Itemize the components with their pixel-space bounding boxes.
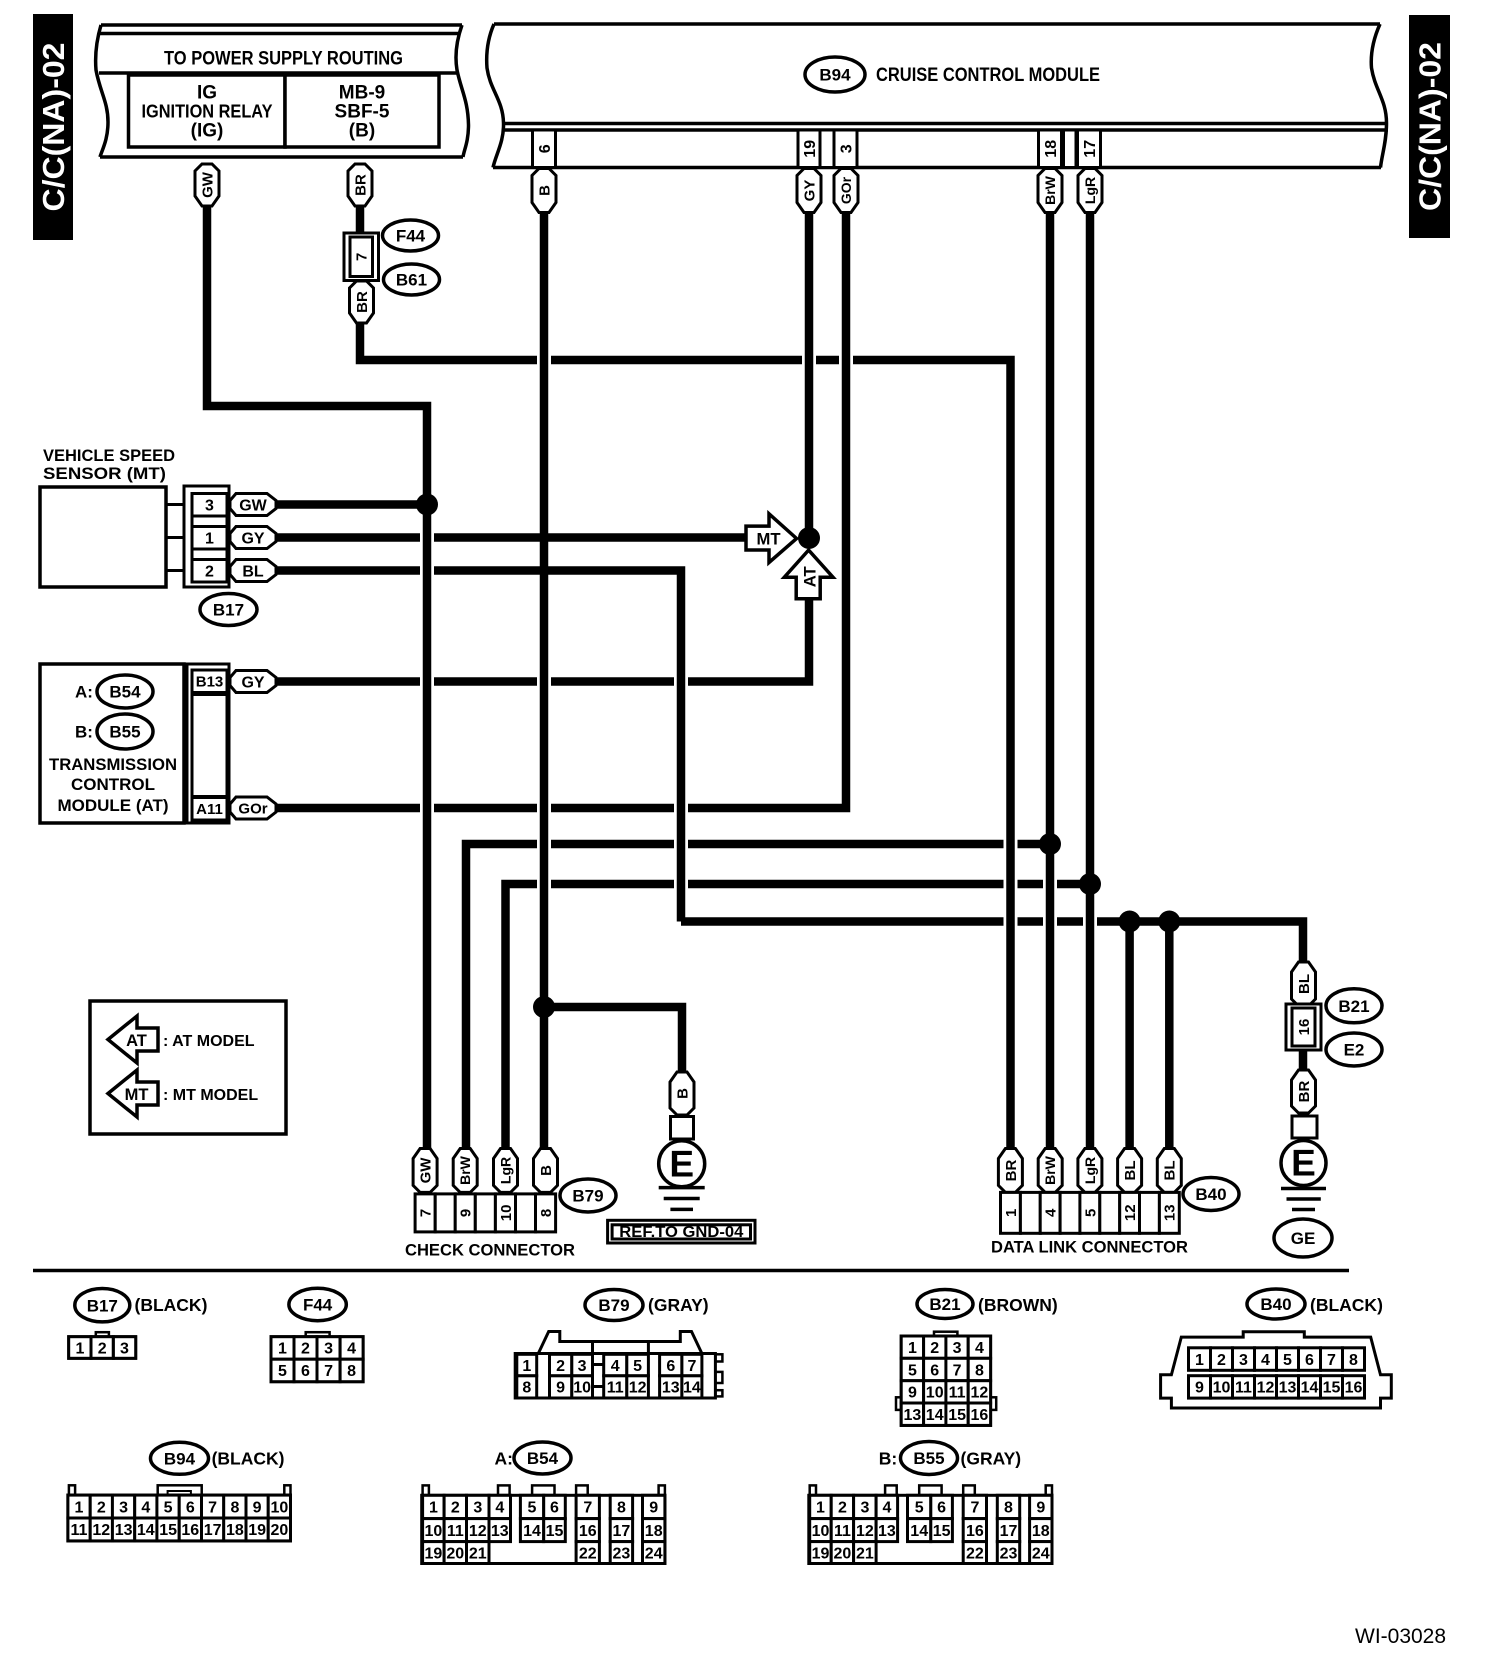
page tab C/C(NA)-02 right: [1409, 15, 1450, 238]
svg-text:14: 14: [1301, 1380, 1319, 1397]
svg-text:VEHICLE SPEED: VEHICLE SPEED: [43, 446, 175, 465]
svg-text:2: 2: [97, 1499, 106, 1516]
svg-text:6: 6: [937, 1500, 946, 1517]
svg-text:17: 17: [204, 1522, 222, 1539]
module pin 18 box: [1039, 130, 1062, 168]
transmission control module box: [40, 664, 184, 823]
wire color pill BR data pin1: [998, 1149, 1022, 1193]
svg-text:LgR: LgR: [1082, 1157, 1098, 1184]
svg-text:E: E: [1291, 1143, 1316, 1184]
svg-text:12: 12: [971, 1385, 989, 1402]
svg-text:BrW: BrW: [1042, 175, 1058, 205]
svg-text:B: B: [674, 1088, 691, 1099]
svg-text:3: 3: [953, 1340, 962, 1357]
connector pinout B94 body: [69, 1485, 75, 1495]
B54 pin 12: [467, 1519, 490, 1542]
svg-text:B17: B17: [213, 601, 244, 620]
svg-text:GE: GE: [1291, 1229, 1316, 1248]
svg-text:4: 4: [347, 1341, 356, 1358]
B54 pin 4: [489, 1495, 511, 1518]
svg-text:10: 10: [425, 1523, 443, 1540]
svg-text:A11: A11: [196, 801, 223, 818]
B55 pin 14: [908, 1519, 931, 1542]
B40 pin 15: [1321, 1376, 1343, 1398]
B21 pin 9: [901, 1381, 923, 1403]
B17 pin 3: [113, 1337, 135, 1359]
sensor pin 3 cell: [192, 494, 227, 517]
svg-text:4: 4: [975, 1340, 984, 1357]
svg-text:B79: B79: [598, 1296, 629, 1315]
connector pinout B79 body outline: [538, 1332, 702, 1354]
wire color pill GW check pin7: [413, 1149, 437, 1193]
svg-text:CHECK CONNECTOR: CHECK CONNECTOR: [405, 1241, 575, 1260]
svg-text:: AT MODEL: : AT MODEL: [163, 1033, 255, 1050]
wire color pill BL data pin13: [1157, 1149, 1181, 1193]
module pin 3 box: [834, 130, 857, 168]
svg-text:13: 13: [491, 1523, 509, 1540]
B55 pin 16: [963, 1519, 986, 1542]
F44 pin 3: [317, 1337, 340, 1360]
svg-text:(BROWN): (BROWN): [978, 1295, 1058, 1315]
B40 pin 2: [1211, 1348, 1233, 1371]
check connector cell 10: [495, 1194, 515, 1232]
sensor connector stub pin3: [166, 503, 184, 506]
B79 pin 2: [550, 1354, 572, 1376]
junction B to ground branch: [533, 996, 555, 1018]
svg-text:GY: GY: [241, 530, 264, 547]
svg-text:(BLACK): (BLACK): [1310, 1295, 1383, 1315]
svg-text:F44: F44: [396, 227, 426, 246]
data link connector cell blank: [1060, 1192, 1080, 1233]
B55 pin 10: [810, 1519, 832, 1542]
svg-text:6: 6: [537, 144, 554, 153]
svg-text:1: 1: [278, 1341, 287, 1358]
svg-text:14: 14: [910, 1523, 928, 1540]
svg-text:BR: BR: [354, 291, 371, 313]
B40 pin 12: [1255, 1376, 1277, 1398]
svg-text:1: 1: [522, 1358, 531, 1375]
svg-text:LgR: LgR: [498, 1157, 514, 1184]
svg-text:7: 7: [208, 1499, 217, 1516]
B21 pin 3: [946, 1336, 968, 1358]
B79 pin 11: [604, 1376, 627, 1398]
B55 pin 12: [854, 1519, 877, 1542]
svg-text:8: 8: [617, 1500, 626, 1517]
F44 pin 8: [340, 1359, 363, 1382]
svg-text:17: 17: [1082, 140, 1099, 158]
svg-text:13: 13: [878, 1523, 896, 1540]
svg-text:7: 7: [1327, 1352, 1336, 1369]
wire color pill BL sensor pin2: [230, 560, 276, 582]
svg-text:B40: B40: [1195, 1185, 1226, 1204]
check connector cell 8: [536, 1194, 556, 1232]
TCM pin A11 cell: [192, 798, 227, 821]
svg-text:9: 9: [1036, 1500, 1045, 1517]
check connector cell 7: [415, 1194, 435, 1232]
svg-text:7: 7: [354, 253, 371, 261]
svg-text:19: 19: [812, 1545, 830, 1562]
B21 pin 13: [901, 1403, 923, 1425]
B94 pin 2: [90, 1495, 112, 1518]
svg-text:(IG): (IG): [191, 121, 224, 142]
B94 pin 5: [157, 1495, 179, 1518]
junction BrW branch node: [1039, 833, 1061, 855]
B79 pin 4: [604, 1354, 627, 1376]
svg-text:3: 3: [120, 1340, 129, 1357]
svg-text:1: 1: [908, 1340, 917, 1357]
wire color pill B on module pin6: [532, 169, 556, 213]
ground symbol E left: [659, 1141, 705, 1187]
wire color pill BrW data pin4: [1038, 1149, 1062, 1193]
svg-text:3: 3: [1239, 1352, 1248, 1369]
svg-text:2: 2: [1217, 1352, 1226, 1369]
vehicle speed sensor box: [40, 487, 166, 587]
svg-text:6: 6: [1305, 1352, 1314, 1369]
svg-text:1: 1: [75, 1340, 84, 1357]
B94 pin 9: [246, 1495, 268, 1518]
junction BL to data link pin13: [1158, 911, 1180, 933]
svg-text:3: 3: [838, 144, 855, 153]
B21 pin 10: [924, 1381, 946, 1403]
svg-text:3: 3: [119, 1499, 128, 1516]
data link connector cell blank: [1140, 1192, 1160, 1233]
svg-text:F44: F44: [303, 1296, 333, 1315]
B54 pin 11: [444, 1519, 466, 1542]
svg-text:14: 14: [523, 1523, 541, 1540]
svg-text:WI-03028: WI-03028: [1355, 1625, 1446, 1648]
svg-text:2: 2: [556, 1358, 565, 1375]
wire BL drop to data link pin 12: [1125, 922, 1134, 1153]
svg-text:8: 8: [538, 1209, 555, 1217]
legend box: [90, 1001, 286, 1134]
svg-text:20: 20: [446, 1545, 464, 1562]
separator line: [33, 1269, 1349, 1273]
B79 pin 10: [572, 1376, 593, 1398]
B94 pin 1: [68, 1495, 90, 1518]
B21 pin 14: [924, 1403, 946, 1425]
svg-text:B55: B55: [913, 1449, 944, 1468]
junction GW node: [416, 494, 438, 516]
svg-text:B55: B55: [109, 723, 140, 742]
F44 pin 4: [340, 1337, 363, 1360]
B54 pin 10: [423, 1519, 445, 1542]
wire color pill LgR check pin10: [494, 1149, 518, 1193]
junction LgR branch node: [1079, 873, 1101, 895]
wire color pill GW sensor pin3: [230, 494, 276, 516]
svg-text:4: 4: [141, 1499, 150, 1516]
svg-text:1: 1: [816, 1500, 825, 1517]
TCM connector bracket: [187, 664, 229, 823]
svg-text:13: 13: [1162, 1204, 1179, 1221]
B94 pin 3: [112, 1495, 134, 1518]
wire GOr module pin3 down and left to TCM A11 (breaks at BL,B,GW wires): [688, 211, 846, 808]
svg-text:22: 22: [966, 1545, 984, 1562]
wire color pill BR right ground: [1292, 1070, 1316, 1113]
svg-text:12: 12: [1122, 1204, 1139, 1221]
wire color pill BrW check pin9: [453, 1149, 477, 1193]
svg-text:12: 12: [629, 1380, 647, 1397]
B54 pin 3: [467, 1495, 490, 1518]
data link connector cell 12: [1120, 1192, 1140, 1233]
svg-text:24: 24: [645, 1545, 663, 1562]
B40 pin 9: [1189, 1376, 1211, 1398]
svg-text:7: 7: [418, 1209, 435, 1217]
B94 pin 6: [179, 1495, 201, 1518]
svg-text:(B): (B): [349, 121, 375, 142]
right ground connector box: [1292, 1116, 1317, 1138]
B54 pin 19: [423, 1542, 445, 1564]
svg-text:20: 20: [271, 1522, 289, 1539]
svg-text:15: 15: [159, 1522, 177, 1539]
svg-text:BrW: BrW: [457, 1155, 473, 1185]
wire color pill GOr on module pin3: [834, 169, 858, 213]
svg-text:IG: IG: [197, 83, 217, 104]
svg-text:A:: A:: [495, 1449, 513, 1469]
svg-text:22: 22: [579, 1545, 597, 1562]
svg-text:CRUISE CONTROL MODULE: CRUISE CONTROL MODULE: [876, 65, 1100, 86]
B21 pin 7: [946, 1358, 968, 1380]
wire LgR module pin17 down to data link pin5: [1086, 211, 1095, 1152]
wire BL horizontal run to right ground (breaks at BR,BrW,LgR wires): [681, 917, 1004, 926]
svg-text:4: 4: [1261, 1352, 1270, 1369]
svg-text:B40: B40: [1260, 1295, 1291, 1314]
F44 pin 2: [294, 1337, 317, 1360]
module pin 17 box: [1078, 130, 1101, 168]
B54 pin 24: [643, 1542, 665, 1564]
junction GY MT/AT node: [798, 527, 820, 549]
svg-text:20: 20: [834, 1545, 852, 1562]
svg-text:11: 11: [949, 1385, 966, 1402]
junction BL to data link pin12: [1119, 911, 1141, 933]
svg-text:(GRAY): (GRAY): [648, 1295, 709, 1315]
svg-text:11: 11: [834, 1523, 851, 1540]
svg-text:21: 21: [469, 1545, 487, 1562]
B54 pin 9: [643, 1495, 665, 1518]
svg-text:GW: GW: [239, 497, 267, 514]
B54 pin 14: [520, 1519, 543, 1542]
svg-text:B17: B17: [87, 1296, 118, 1315]
svg-text:(BLACK): (BLACK): [135, 1295, 208, 1315]
svg-text:CONTROL: CONTROL: [71, 775, 155, 794]
svg-text:6: 6: [186, 1499, 195, 1516]
svg-text:10: 10: [812, 1523, 830, 1540]
svg-text:8: 8: [347, 1363, 356, 1380]
connector designator oval B21: [1326, 989, 1382, 1023]
legend AT arrow: [108, 1016, 158, 1063]
wire color pill BrW on module pin18: [1038, 169, 1062, 213]
svg-text:3: 3: [473, 1500, 482, 1517]
ground connector box: [671, 1117, 694, 1140]
wire color pill BL right ground: [1292, 962, 1316, 1006]
svg-text:3: 3: [860, 1500, 869, 1517]
svg-text:16: 16: [1296, 1019, 1313, 1036]
B94 pin 13: [112, 1518, 134, 1541]
svg-text:14: 14: [926, 1407, 944, 1424]
wire color pill BR below B61: [350, 281, 374, 323]
svg-text:8: 8: [1004, 1500, 1013, 1517]
B54 pin 7: [576, 1495, 599, 1518]
check connector cell blank: [516, 1194, 536, 1232]
B54 pin 16: [576, 1519, 599, 1542]
svg-text:9: 9: [908, 1385, 917, 1402]
wire BrW module pin18 down to data link pin4: [1046, 211, 1055, 1152]
svg-text:: MT MODEL: : MT MODEL: [163, 1087, 258, 1104]
svg-text:7: 7: [324, 1363, 333, 1380]
B40 pin 6: [1299, 1348, 1321, 1371]
B55 pin 18: [1030, 1519, 1052, 1542]
B55 pin 6: [931, 1495, 953, 1518]
svg-text:1: 1: [75, 1499, 84, 1516]
B54 pin 18: [643, 1519, 665, 1542]
svg-text:C/C(NA)-02: C/C(NA)-02: [36, 42, 71, 211]
svg-text:REF.TO GND-04: REF.TO GND-04: [619, 1224, 743, 1241]
svg-text:B21: B21: [1338, 997, 1369, 1016]
svg-text:8: 8: [230, 1499, 239, 1516]
B79 pin 8: [517, 1376, 537, 1398]
data link connector cell blank: [1020, 1192, 1040, 1233]
B21 pin 2: [924, 1336, 946, 1358]
svg-text:SENSOR (MT): SENSOR (MT): [43, 464, 166, 483]
wire BL drop to data link pin 13: [1165, 922, 1174, 1153]
module designator oval B94: [805, 57, 865, 92]
svg-text:AT: AT: [801, 566, 820, 588]
wire color pill BL data pin12: [1118, 1149, 1142, 1193]
sensor connector B17 bracket: [184, 486, 229, 587]
svg-text:E: E: [669, 1144, 694, 1185]
svg-text:(BLACK): (BLACK): [212, 1449, 285, 1469]
svg-text:10: 10: [271, 1499, 289, 1516]
svg-text:13: 13: [662, 1380, 680, 1397]
svg-text:B61: B61: [396, 271, 427, 290]
svg-text:2: 2: [205, 564, 214, 581]
svg-text:2: 2: [838, 1500, 847, 1517]
wire B ground branch to E ground: [544, 1007, 682, 1074]
wire color pill GY TCM B13: [230, 671, 276, 693]
svg-text:17: 17: [1000, 1523, 1018, 1540]
svg-text:11: 11: [447, 1523, 464, 1540]
B94 pin 8: [224, 1495, 246, 1518]
B54 pin 21: [467, 1542, 490, 1564]
wire color pill GY sensor pin1: [230, 527, 276, 549]
B55 pin 8: [997, 1495, 1019, 1518]
svg-text:MODULE (AT): MODULE (AT): [57, 796, 168, 815]
TCM pin B13 cell: [192, 670, 227, 693]
svg-text:DATA LINK CONNECTOR: DATA LINK CONNECTOR: [991, 1238, 1188, 1257]
svg-text:BR: BR: [1296, 1081, 1313, 1103]
B55 pin 4: [876, 1495, 898, 1518]
connector pinout B17 body: [96, 1332, 109, 1337]
B21 pin 6: [924, 1358, 946, 1380]
check connector cell 9: [455, 1194, 475, 1232]
connector pinout B79 designator oval: [585, 1290, 643, 1321]
module pin 19 box: [798, 130, 820, 168]
B79 pin 14: [682, 1376, 702, 1398]
svg-text:GOr: GOr: [838, 176, 854, 204]
wire B module pin6 down to check connector pin8: [540, 211, 549, 1152]
B55 pin 9: [1030, 1495, 1052, 1518]
svg-text:3: 3: [324, 1341, 333, 1358]
svg-text:15: 15: [933, 1523, 951, 1540]
AT model arrow pointing up into GY junction: [784, 550, 833, 599]
F44 pin 7: [317, 1359, 340, 1382]
svg-text:12: 12: [1257, 1380, 1275, 1397]
reference box REF.TO GND-04: [608, 1220, 755, 1243]
B79 pin 1: [517, 1354, 537, 1376]
svg-text:1: 1: [1003, 1209, 1020, 1217]
B55 pin 5: [908, 1495, 931, 1518]
svg-text:B21: B21: [929, 1295, 960, 1314]
connector pinout F44 designator oval: [289, 1288, 346, 1320]
B55 pin 19: [810, 1542, 832, 1564]
svg-text:B:: B:: [75, 723, 93, 742]
data link connector cell blank: [1100, 1192, 1120, 1233]
svg-text:6: 6: [301, 1363, 310, 1380]
sensor connector stub pin1: [166, 536, 184, 539]
svg-text:4: 4: [611, 1358, 620, 1375]
svg-text:9: 9: [649, 1500, 658, 1517]
svg-text:19: 19: [248, 1522, 266, 1539]
svg-text:GOr: GOr: [238, 800, 267, 817]
svg-text:2: 2: [930, 1340, 939, 1357]
svg-text:1: 1: [429, 1500, 438, 1517]
sensor pin 2 cell: [192, 560, 227, 583]
F44 pin 1: [271, 1337, 294, 1360]
svg-text:B: B: [536, 185, 553, 196]
svg-text:GY: GY: [241, 674, 264, 691]
connector pinout B54 top tabs: [423, 1485, 429, 1495]
svg-text:10: 10: [1213, 1380, 1231, 1397]
B94 pin 18: [224, 1518, 246, 1541]
B17 pin 2: [91, 1337, 113, 1359]
svg-text:1: 1: [205, 531, 214, 548]
junction connector B21/E2 pin16 box: [1286, 1004, 1321, 1050]
connector pinout B40 body outline: [1161, 1332, 1392, 1408]
junction connector F44/B61 pin7 box: [344, 233, 379, 281]
B40 pin 3: [1233, 1348, 1255, 1371]
connector designator oval B40: [1183, 1178, 1239, 1211]
check connector cell blank: [435, 1194, 455, 1232]
connector pinout B40 designator oval: [1247, 1289, 1305, 1319]
svg-text:23: 23: [1000, 1545, 1018, 1562]
cruise control module banner outline: [493, 24, 1388, 168]
check connector cell blank: [475, 1194, 495, 1232]
svg-text:14: 14: [137, 1522, 155, 1539]
wire LgR branch to check connector pin10 (breaks at B,BL,BR,BrW wires): [1057, 880, 1090, 889]
svg-text:8: 8: [975, 1362, 984, 1379]
svg-text:E2: E2: [1344, 1041, 1365, 1060]
module pin 6 box: [533, 130, 556, 168]
B21 pin 8: [968, 1358, 990, 1380]
svg-text:TO POWER SUPPLY ROUTING: TO POWER SUPPLY ROUTING: [164, 49, 403, 70]
svg-text:16: 16: [971, 1407, 989, 1424]
B55 pin 22: [963, 1542, 986, 1564]
B40 pin 10: [1211, 1376, 1233, 1398]
svg-text:5: 5: [915, 1500, 924, 1517]
svg-text:14: 14: [683, 1380, 701, 1397]
svg-text:7: 7: [953, 1362, 962, 1379]
svg-text:24: 24: [1032, 1545, 1050, 1562]
wire color pill LgR data pin5: [1078, 1149, 1102, 1193]
B55 pin 3: [854, 1495, 877, 1518]
B40 pin 13: [1277, 1376, 1299, 1398]
B21 pin 15: [946, 1403, 968, 1425]
B40 pin 4: [1255, 1348, 1277, 1371]
wire GW sensor pin3 to junction: [272, 500, 427, 509]
svg-text:BrW: BrW: [1042, 1155, 1058, 1185]
B54 pin 23: [610, 1542, 632, 1564]
B94 pin 20: [268, 1518, 290, 1541]
svg-text:6: 6: [930, 1362, 939, 1379]
